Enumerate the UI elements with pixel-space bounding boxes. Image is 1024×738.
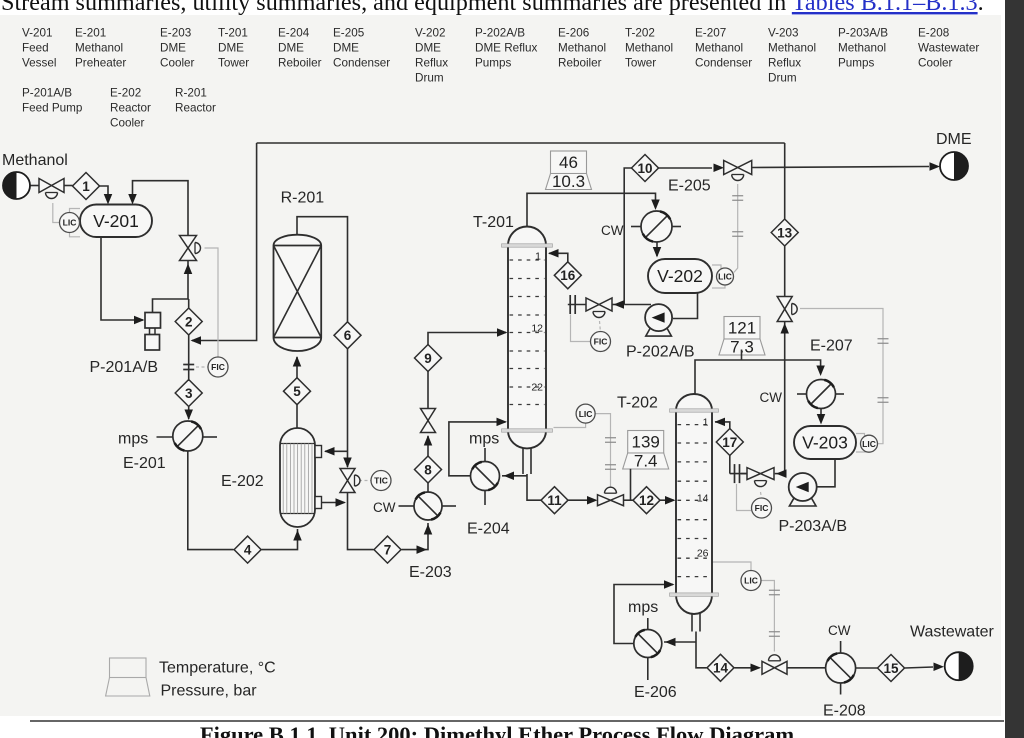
svg-text:Cooler: Cooler: [918, 57, 953, 70]
svg-text:46: 46: [559, 153, 578, 172]
svg-text:Methanol: Methanol: [695, 42, 743, 55]
svg-text:CW: CW: [601, 223, 624, 238]
svg-text:mps: mps: [118, 431, 148, 448]
svg-text:DME: DME: [415, 42, 441, 55]
svg-text:Condenser: Condenser: [333, 57, 390, 70]
svg-text:V-203: V-203: [802, 433, 848, 453]
svg-text:3: 3: [185, 386, 193, 401]
svg-text:Tower: Tower: [218, 57, 249, 70]
svg-text:LIC: LIC: [862, 439, 876, 449]
svg-text:V-201: V-201: [93, 211, 139, 231]
svg-text:Feed: Feed: [22, 42, 49, 55]
svg-text:Pumps: Pumps: [838, 57, 875, 70]
svg-text:11: 11: [547, 493, 562, 508]
svg-text:Reactor: Reactor: [110, 102, 151, 115]
svg-text:DME: DME: [333, 42, 359, 55]
svg-text:mps: mps: [628, 599, 658, 616]
svg-text:13: 13: [777, 225, 793, 240]
svg-text:4: 4: [244, 542, 252, 557]
svg-text:E-201: E-201: [123, 455, 166, 472]
svg-text:E-208: E-208: [918, 27, 949, 40]
svg-text:Vessel: Vessel: [22, 57, 56, 70]
svg-text:26: 26: [697, 548, 709, 560]
svg-text:1: 1: [535, 251, 541, 263]
svg-text:121: 121: [728, 319, 756, 338]
svg-text:V-201: V-201: [22, 27, 53, 40]
svg-text:V-203: V-203: [768, 27, 799, 40]
svg-text:E-205: E-205: [333, 27, 365, 40]
svg-text:V-202: V-202: [415, 27, 446, 40]
svg-text:E-204: E-204: [278, 27, 310, 40]
svg-text:6: 6: [344, 328, 352, 343]
svg-text:P-202A/B: P-202A/B: [626, 344, 694, 361]
svg-text:TIC: TIC: [374, 476, 388, 486]
svg-text:5: 5: [293, 384, 301, 399]
svg-text:Methanol: Methanol: [75, 42, 123, 55]
svg-text:22: 22: [531, 382, 543, 394]
svg-text:14: 14: [697, 493, 709, 505]
svg-text:P-201A/B: P-201A/B: [22, 87, 72, 100]
svg-text:E-206: E-206: [634, 684, 677, 701]
svg-text:CW: CW: [828, 623, 851, 638]
svg-text:P-203A/B: P-203A/B: [779, 518, 847, 535]
svg-text:P-201A/B: P-201A/B: [90, 359, 158, 376]
svg-text:DME: DME: [936, 131, 972, 148]
svg-text:12: 12: [531, 323, 543, 335]
svg-text:Drum: Drum: [415, 72, 444, 85]
svg-text:14: 14: [713, 661, 729, 676]
svg-text:DME: DME: [278, 42, 304, 55]
svg-text:FIC: FIC: [211, 362, 225, 372]
svg-text:Methanol: Methanol: [625, 42, 673, 55]
svg-text:LIC: LIC: [718, 272, 732, 282]
svg-text:Methanol: Methanol: [558, 42, 606, 55]
svg-text:Cooler: Cooler: [160, 57, 195, 70]
svg-text:Feed Pump: Feed Pump: [22, 102, 83, 115]
svg-text:Wastewater: Wastewater: [918, 42, 979, 55]
svg-text:139: 139: [632, 433, 660, 452]
svg-text:Reactor: Reactor: [175, 102, 216, 115]
svg-text:16: 16: [560, 268, 576, 283]
svg-text:LIC: LIC: [579, 409, 593, 419]
svg-text:2: 2: [185, 314, 193, 329]
svg-text:T-201: T-201: [473, 214, 514, 231]
svg-text:Preheater: Preheater: [75, 57, 126, 70]
svg-text:R-201: R-201: [281, 190, 325, 207]
svg-text:12: 12: [639, 493, 654, 508]
svg-text:E-205: E-205: [668, 178, 711, 195]
svg-text:LIC: LIC: [63, 218, 77, 228]
svg-text:P-202A/B: P-202A/B: [475, 27, 525, 40]
svg-text:Methanol: Methanol: [838, 42, 886, 55]
svg-text:T-202: T-202: [625, 27, 655, 40]
svg-text:17: 17: [722, 435, 737, 450]
svg-text:CW: CW: [373, 500, 396, 515]
svg-text:E-207: E-207: [810, 338, 853, 355]
svg-text:1: 1: [703, 417, 709, 429]
svg-text:LIC: LIC: [744, 576, 758, 586]
svg-text:Reboiler: Reboiler: [278, 57, 322, 70]
svg-text:mps: mps: [469, 431, 499, 448]
svg-text:Tower: Tower: [625, 57, 656, 70]
svg-text:Reflux: Reflux: [415, 57, 448, 70]
svg-text:E-203: E-203: [409, 564, 452, 581]
svg-text:Pressure, bar: Pressure, bar: [161, 683, 258, 700]
svg-text:15: 15: [883, 661, 899, 676]
svg-text:CW: CW: [760, 390, 783, 405]
svg-text:7.4: 7.4: [634, 452, 658, 471]
svg-text:Condenser: Condenser: [695, 57, 752, 70]
svg-text:E-202: E-202: [221, 473, 264, 490]
svg-text:DME: DME: [218, 42, 244, 55]
svg-text:9: 9: [424, 351, 432, 366]
svg-text:Methanol: Methanol: [768, 42, 816, 55]
svg-text:E-202: E-202: [110, 87, 141, 100]
svg-text:10: 10: [637, 161, 652, 176]
svg-text:7: 7: [384, 542, 392, 557]
svg-text:Drum: Drum: [768, 72, 797, 85]
svg-text:Reboiler: Reboiler: [558, 57, 602, 70]
svg-text:P-203A/B: P-203A/B: [838, 27, 888, 40]
svg-text:E-201: E-201: [75, 27, 106, 40]
svg-text:E-207: E-207: [695, 27, 726, 40]
svg-text:E-208: E-208: [823, 703, 866, 720]
svg-text:DME Reflux: DME Reflux: [475, 42, 538, 55]
svg-text:10.3: 10.3: [552, 172, 585, 191]
svg-text:V-202: V-202: [657, 266, 703, 286]
svg-text:E-206: E-206: [558, 27, 589, 40]
svg-text:Reflux: Reflux: [768, 57, 801, 70]
svg-text:DME: DME: [160, 42, 186, 55]
svg-text:Stream summaries, utility summ: Stream summaries, utility summaries, and…: [1, 0, 984, 16]
svg-text:T-202: T-202: [617, 395, 658, 412]
svg-text:R-201: R-201: [175, 87, 207, 100]
svg-text:T-201: T-201: [218, 27, 248, 40]
svg-text:Methanol: Methanol: [2, 152, 68, 169]
svg-text:Temperature, °C: Temperature, °C: [159, 660, 276, 677]
svg-text:E-204: E-204: [467, 521, 510, 538]
svg-text:FIC: FIC: [755, 503, 769, 513]
svg-text:E-203: E-203: [160, 27, 191, 40]
svg-text:1: 1: [82, 179, 90, 194]
svg-text:Pumps: Pumps: [475, 57, 512, 70]
svg-text:Figure B.1.1. Unit 200: Dimeth: Figure B.1.1. Unit 200: Dimethyl Ether P…: [200, 722, 795, 738]
svg-text:Wastewater: Wastewater: [910, 624, 995, 641]
svg-text:FIC: FIC: [594, 337, 608, 347]
svg-text:8: 8: [424, 462, 432, 477]
svg-text:Cooler: Cooler: [110, 117, 145, 130]
